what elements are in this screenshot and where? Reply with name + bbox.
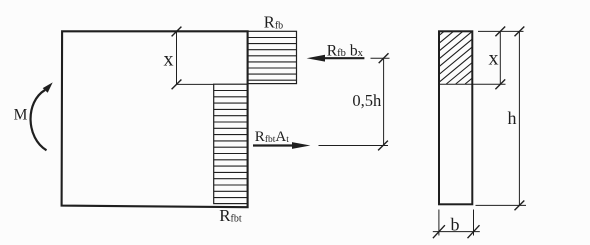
svg-text:Rfbbx: Rfbbx [327,42,364,59]
section b dimension line [433,231,480,233]
tick section x top [495,27,505,37]
beam elevation outline (large square) [62,31,248,207]
tick section x bottom [495,79,505,89]
svg-text:RfbtAt: RfbtAt [255,129,289,145]
cross-section rectangle [439,31,472,204]
hatch Rfb horizontal lines [248,38,297,81]
x dimension bottom extension [177,83,215,85]
force arrow Rfbt At (pointing right) [253,144,296,146]
tick section h top [515,27,525,37]
section h bottom extension [476,204,527,206]
tick top of x dim [172,27,182,37]
tick b left [433,225,445,238]
svg-text:0,5h: 0,5h [352,91,382,110]
b left extension line [438,210,440,236]
tick bottom of x dim [172,80,182,90]
svg-text:x: x [164,49,174,71]
svg-text:M: M [14,107,28,124]
tick at Rfbt arrow dim point [378,141,388,151]
dimension line right of Rfbt arrow [319,145,389,147]
hatched compression zone of section [439,31,472,84]
section x dimension line [499,31,501,84]
tick section h bottom [515,201,525,211]
force arrow Rfb bx (pointing left) [322,57,364,59]
section x bottom extension [472,83,505,85]
b right extension line [473,210,475,236]
moment arrowhead [43,82,53,92]
svg-text:Rfb: Rfb [264,13,283,32]
compression stress block Rfb [248,31,297,83]
moment arc M [31,90,47,150]
svg-text:x: x [489,47,499,69]
svg-text:Rfbt: Rfbt [219,206,242,225]
dimension stub right of Rfb arrow [371,57,390,59]
tension stress block Rfbt [214,84,248,203]
neutral axis line of section [439,83,472,85]
svg-text:b: b [451,215,460,235]
section top extension line [478,30,524,32]
tick b right [468,225,480,238]
svg-text:h: h [508,108,517,128]
hatch Rfbt horizontal lines [214,91,248,198]
tick at Rfb arrow dim point [379,53,389,63]
0,5h dimension line [383,58,385,145]
x dimension line (elevation) [176,32,178,85]
section h dimension line [518,31,520,205]
